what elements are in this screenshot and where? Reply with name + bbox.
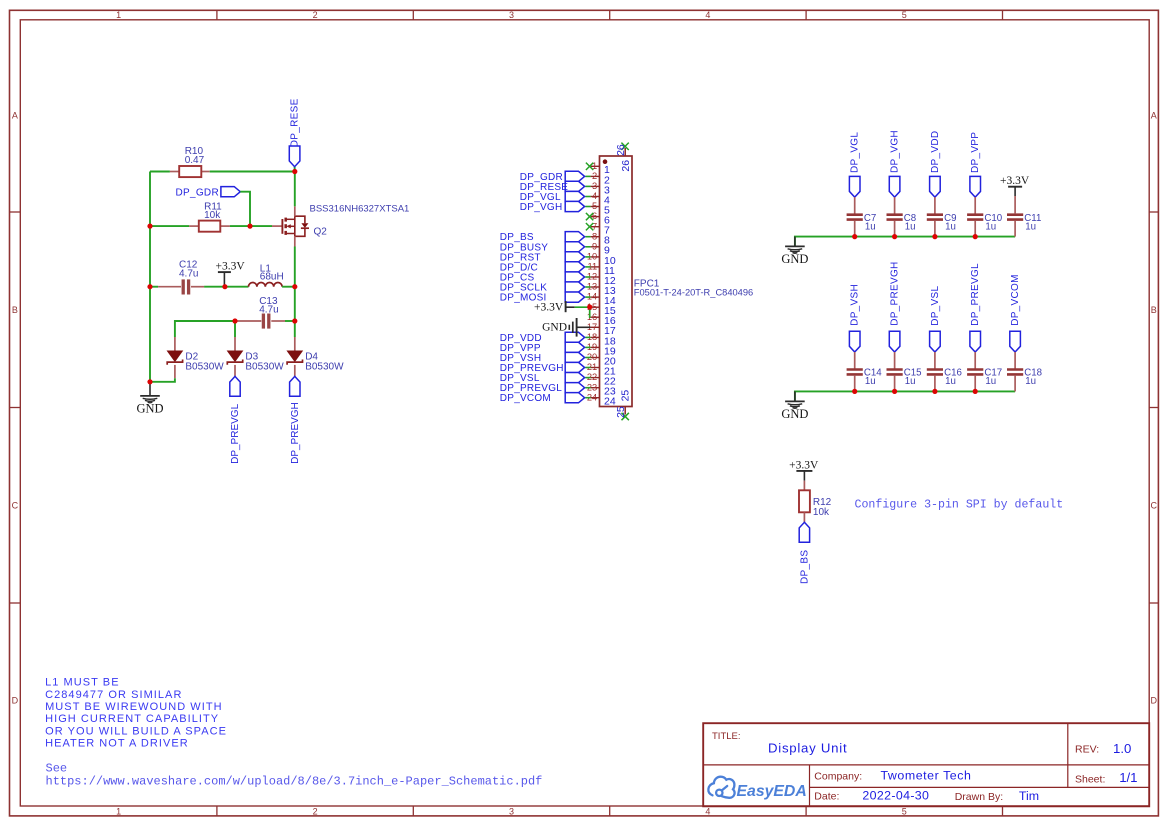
svg-text:TITLE:: TITLE:: [712, 731, 741, 742]
pin 25 no-connect X: [622, 413, 629, 420]
pin 2 stub: [591, 175, 600, 177]
capacitor C15 1u: [887, 368, 922, 392]
pin 5 stub: [591, 206, 600, 208]
frame column ticks bottom: [217, 806, 1003, 816]
wire pin 10: [585, 256, 590, 258]
svg-text:2: 2: [313, 806, 318, 816]
svg-text:DP_PREVGH: DP_PREVGH: [290, 402, 301, 464]
wire flag to C18: [1014, 352, 1016, 369]
svg-text:DP_VDD: DP_VDD: [930, 131, 941, 173]
svg-text:https://www.waveshare.com/w/up: https://www.waveshare.com/w/upload/8/8e/…: [46, 774, 543, 788]
wire pin 12: [585, 276, 590, 278]
capacitor C10 1u: [967, 213, 1003, 237]
svg-text:DP_PREVGH: DP_PREVGH: [890, 261, 901, 325]
wire pin 20: [585, 357, 590, 359]
svg-text:26: 26: [615, 144, 627, 156]
svg-text:3: 3: [509, 10, 514, 20]
wire Q2 source down: [294, 247, 296, 287]
wire +3.3V to pins 15 16: [575, 307, 591, 317]
wire bus row1: [795, 237, 1015, 247]
capacitor C12: [158, 259, 204, 294]
svg-text:OR YOU WILL BUILD A SPACE: OR YOU WILL BUILD A SPACE: [45, 725, 227, 737]
node junction C17: [973, 389, 978, 394]
svg-text:GND: GND: [542, 322, 567, 334]
svg-text:1.0: 1.0: [1113, 741, 1131, 756]
wire L1 to rail: [282, 286, 295, 288]
wire pin 11: [585, 266, 590, 268]
node junction C7: [852, 234, 857, 239]
pin 1 stub: [591, 165, 600, 167]
node junction C13 left: [232, 318, 237, 323]
wire pin 21: [585, 367, 590, 369]
svg-text:5: 5: [592, 201, 597, 211]
pin 12 stub: [591, 276, 600, 278]
svg-text:+3.3V: +3.3V: [534, 301, 564, 313]
power +3.3V left: [216, 261, 246, 287]
pin 17 stub: [591, 326, 600, 328]
net flag DP_VGH: [889, 130, 900, 197]
net flag DP_VPP: [970, 132, 981, 197]
pin 7 no-connect X: [586, 223, 593, 230]
svg-text:F0501-T-24-20T-R_C840496: F0501-T-24-20T-R_C840496: [634, 288, 753, 298]
svg-text:5: 5: [902, 806, 907, 816]
svg-text:1u: 1u: [985, 221, 996, 232]
net flag DP_CS pin 12: [500, 272, 585, 284]
svg-text:GND: GND: [781, 407, 808, 421]
svg-text:+3.3V: +3.3V: [1000, 175, 1030, 187]
svg-text:2022-04-30: 2022-04-30: [862, 789, 929, 803]
wire pin 14: [585, 296, 590, 298]
wire bus row2: [795, 391, 1015, 401]
svg-text:Display Unit: Display Unit: [768, 740, 847, 755]
wire pin 5: [585, 206, 590, 208]
svg-text:Twometer Tech: Twometer Tech: [881, 769, 972, 783]
pin 25 stub bottom: [624, 407, 626, 415]
svg-text:Company:: Company:: [814, 770, 862, 782]
pin 21 stub: [591, 367, 600, 369]
svg-text:9: 9: [592, 241, 597, 251]
svg-text:24: 24: [604, 396, 616, 408]
svg-text:C2849477 OR SIMILAR: C2849477 OR SIMILAR: [45, 689, 182, 701]
node junction C14: [852, 389, 857, 394]
node junction C10: [973, 234, 978, 239]
wire flag to C15: [894, 352, 896, 369]
diode D2 B0530W: [167, 337, 224, 378]
frame row letters right: [1151, 111, 1158, 706]
svg-text:Configure 3-pin SPI by default: Configure 3-pin SPI by default: [855, 498, 1064, 511]
net flag DP_VCOM pin 24: [500, 393, 585, 405]
ground GND row1: [781, 237, 808, 267]
net flag DP_VSH pin 20: [500, 352, 585, 364]
svg-text:4.7u: 4.7u: [179, 268, 198, 279]
net flag DP_GDR: [176, 187, 241, 199]
wire C13 right to rail: [285, 320, 295, 322]
svg-text:HEATER NOT A DRIVER: HEATER NOT A DRIVER: [45, 738, 189, 750]
node junction C8: [892, 234, 897, 239]
net flag DP_VSH: [849, 284, 860, 352]
net flag DP_VCOM: [1010, 274, 1021, 352]
EasyEDA logo cloud: [708, 777, 734, 798]
svg-text:1u: 1u: [1025, 376, 1036, 387]
power +3.3V above R12: [789, 459, 819, 480]
transistor Q2 BSS316NH6327XTSA1: [272, 204, 409, 247]
svg-text:B0530W: B0530W: [245, 361, 284, 372]
svg-text:1u: 1u: [905, 376, 916, 387]
svg-text:1u: 1u: [865, 221, 876, 232]
svg-text:Drawn By:: Drawn By:: [955, 791, 1003, 803]
net flag DP_MOSI pin 14: [500, 292, 585, 304]
wire pin 4: [585, 196, 590, 198]
svg-text:5: 5: [902, 10, 907, 20]
wire R11 row left: [150, 225, 189, 227]
wire pin 3: [585, 185, 590, 187]
svg-text:DP_BS: DP_BS: [799, 550, 810, 584]
wire pin 18: [585, 336, 590, 338]
net flag DP_D/C pin 11: [500, 262, 585, 274]
pin 9 stub: [591, 246, 600, 248]
svg-text:4: 4: [705, 806, 710, 816]
inductor L1 68uH: [249, 263, 284, 286]
frame row ticks left: [10, 212, 21, 603]
power +3.3V above C11: [1000, 175, 1030, 214]
pin 18 stub: [591, 336, 600, 338]
svg-text:Sheet:: Sheet:: [1075, 774, 1105, 786]
svg-text:GND: GND: [781, 252, 808, 266]
pin 22 stub: [591, 377, 600, 379]
net flag DP_PREVGH: [290, 376, 301, 464]
capacitor C18 1u: [1007, 368, 1042, 392]
wire flag to C16: [934, 352, 936, 369]
title block outer box: [703, 723, 1149, 806]
svg-text:L1 MUST BE: L1 MUST BE: [45, 677, 120, 689]
node junction C12 left rail: [147, 284, 152, 289]
net flag DP_VDD: [930, 131, 941, 197]
svg-text:1u: 1u: [945, 221, 956, 232]
svg-text:1: 1: [116, 10, 121, 20]
svg-text:1u: 1u: [1025, 221, 1036, 232]
svg-text:B: B: [12, 305, 18, 315]
svg-text:Tim: Tim: [1019, 789, 1039, 803]
net flag DP_BS pin 8: [500, 232, 585, 244]
ground GND left: [136, 382, 163, 416]
net flag DP_GDR pin 2: [520, 171, 585, 183]
pin 3 stub: [591, 185, 600, 187]
svg-text:8: 8: [592, 231, 597, 241]
svg-text:1u: 1u: [865, 376, 876, 387]
net flag DP_PREVGH: [889, 261, 900, 352]
svg-text:MUST BE WIREWOUND WITH: MUST BE WIREWOUND WITH: [45, 701, 223, 713]
wire pin 8: [585, 236, 590, 238]
svg-text:DP_VCOM: DP_VCOM: [500, 393, 551, 404]
pin 26 stub top: [624, 148, 626, 156]
svg-text:BSS316NH6327XTSA1: BSS316NH6327XTSA1: [310, 204, 410, 215]
net flag DP_VGH pin 5: [520, 201, 585, 213]
wire C12 to +3.3V node: [204, 286, 248, 288]
svg-text:4: 4: [592, 191, 597, 201]
wire pin 2: [585, 175, 590, 177]
wire C13 row left corner: [175, 321, 235, 337]
wire left rail vertical: [149, 172, 151, 382]
node junction C16: [932, 389, 937, 394]
svg-text:DP_VGL: DP_VGL: [850, 132, 861, 173]
wire flag to C9: [934, 197, 936, 214]
pin 15 stub: [591, 306, 600, 308]
wire D3 top lead: [234, 321, 236, 337]
svg-text:DP_RESE: DP_RESE: [290, 98, 301, 147]
power +3.3V pin15: [534, 301, 575, 313]
svg-text:DP_GDR: DP_GDR: [176, 188, 219, 199]
net flag DP_PREVGL: [230, 376, 241, 464]
connector FPC1 body: [600, 156, 633, 407]
wire DP_GDR to gate node: [240, 192, 250, 226]
diode D3 B0530W: [227, 337, 284, 376]
pin 13 stub: [591, 286, 600, 288]
svg-text:+3.3V: +3.3V: [789, 459, 819, 471]
net flag DP_RST pin 10: [500, 252, 585, 264]
capacitor C17 1u: [967, 368, 1002, 392]
pin 24 stub: [591, 397, 600, 399]
wire pin 13: [585, 286, 590, 288]
wire pin 24: [585, 397, 590, 399]
pin 1 marker dot: [603, 159, 608, 164]
svg-text:C: C: [12, 501, 19, 511]
net flag DP_BS bottom: [799, 522, 810, 584]
capacitor C7 1u: [847, 213, 877, 237]
wire pin 23: [585, 387, 590, 389]
svg-text:DP_VPP: DP_VPP: [970, 132, 981, 173]
net flag DP_PREVGH pin 21: [500, 362, 585, 374]
net flag DP_VPP pin 19: [500, 342, 585, 354]
pin 10 stub: [591, 256, 600, 258]
svg-text:D: D: [1151, 696, 1158, 706]
svg-text:16: 16: [587, 312, 597, 322]
net flag DP_VGL: [849, 132, 860, 198]
net flag DP_PREVGL: [970, 263, 981, 352]
svg-text:Q2: Q2: [314, 227, 328, 238]
net flag DP_RESE pin 3: [520, 181, 585, 193]
pin 14 stub: [591, 296, 600, 298]
net flag DP_VGL pin 4: [520, 191, 585, 203]
frame column numbers bottom: [116, 806, 907, 816]
svg-text:GND: GND: [136, 402, 163, 416]
resistor R12 10k: [799, 481, 832, 523]
wire D4 top lead: [294, 321, 296, 337]
frame column ticks top: [217, 10, 1003, 19]
capacitor C14 1u: [847, 368, 883, 392]
wire pin 9: [585, 246, 590, 248]
svg-text:DP_VGH: DP_VGH: [520, 202, 563, 213]
svg-text:HIGH CURRENT CAPABILITY: HIGH CURRENT CAPABILITY: [45, 713, 219, 725]
svg-text:EasyEDA: EasyEDA: [737, 783, 807, 800]
svg-text:25: 25: [619, 390, 631, 402]
node junction C15: [892, 389, 897, 394]
svg-text:DP_PREVGL: DP_PREVGL: [970, 263, 981, 326]
title block divider horizontal 1: [703, 764, 1149, 766]
wire Q2 drain up: [294, 172, 296, 207]
svg-text:26: 26: [620, 160, 632, 172]
node junction L1 rail: [292, 284, 297, 289]
svg-text:DP_VGH: DP_VGH: [890, 130, 901, 173]
wire pin 19: [585, 346, 590, 348]
diode D4 B0530W: [287, 337, 344, 376]
capacitor C8 1u: [887, 213, 917, 237]
svg-text:10k: 10k: [813, 507, 830, 518]
svg-text:REV:: REV:: [1075, 744, 1099, 756]
svg-text:DP_PREVGL: DP_PREVGL: [230, 403, 241, 463]
pin 20 stub: [591, 357, 600, 359]
net flag DP_BUSY pin 9: [500, 242, 585, 254]
svg-text:B0530W: B0530W: [185, 361, 224, 372]
node junction gnd left: [147, 379, 152, 384]
wire flag to C8: [894, 197, 896, 214]
net flag DP_VDD pin 18: [500, 332, 585, 344]
wire flag to C14: [854, 352, 856, 369]
wire flag to C10: [974, 197, 976, 214]
svg-text:B0530W: B0530W: [305, 361, 344, 372]
title block divider vertical logo cell: [809, 765, 811, 806]
svg-text:+3.3V: +3.3V: [216, 261, 246, 273]
ground GND row2: [781, 391, 808, 421]
svg-text:3: 3: [509, 806, 514, 816]
svg-text:DP_VCOM: DP_VCOM: [1010, 274, 1021, 326]
svg-text:4: 4: [705, 10, 710, 20]
wire flag to C7: [854, 197, 856, 214]
svg-text:1u: 1u: [985, 376, 996, 387]
svg-text:1u: 1u: [945, 376, 956, 387]
capacitor C16 1u: [927, 368, 962, 392]
svg-text:1: 1: [116, 806, 121, 816]
pin 19 stub: [591, 346, 600, 348]
wire pin 22: [585, 377, 590, 379]
svg-text:C: C: [1151, 501, 1158, 511]
node junction +3.3V left: [222, 284, 227, 289]
pin 26 no-connect X: [621, 143, 628, 150]
node junction R11 left rail: [147, 224, 152, 229]
svg-text:2: 2: [592, 171, 597, 181]
svg-text:10k: 10k: [204, 210, 221, 221]
node junction C13 rail: [292, 318, 297, 323]
net flag DP_VSL: [930, 286, 941, 352]
frame column numbers top: [116, 10, 907, 20]
svg-text:D: D: [12, 696, 19, 706]
node junction pin15: [587, 304, 592, 309]
title block divider vertical rev/sheet: [1067, 723, 1069, 787]
net flag DP_PREVGL pin 23: [500, 383, 585, 395]
node junction DP_RESE: [292, 169, 297, 174]
title block divider horizontal 2: [810, 786, 1150, 788]
svg-text:1u: 1u: [905, 221, 916, 232]
svg-text:A: A: [1151, 111, 1157, 121]
capacitor C13: [235, 296, 285, 329]
svg-text:4.7u: 4.7u: [259, 305, 278, 316]
pin 11 stub: [591, 266, 600, 268]
pin 8 stub: [591, 236, 600, 238]
resistor R10: [170, 146, 210, 177]
svg-text:68uH: 68uH: [260, 271, 284, 282]
net flag DP_VSL pin 22: [500, 373, 585, 385]
svg-text:DP_VSH: DP_VSH: [850, 284, 861, 326]
capacitor C9 1u: [927, 213, 957, 237]
pin 23 stub: [591, 387, 600, 389]
pin 6 no-connect X: [586, 213, 593, 220]
pin 4 stub: [591, 196, 600, 198]
svg-text:A: A: [12, 111, 18, 121]
note text L1 MUST BE block: [45, 677, 227, 750]
wire top row R10 left: [150, 171, 170, 173]
svg-text:B: B: [1151, 305, 1157, 315]
svg-text:0.47: 0.47: [185, 155, 205, 166]
svg-text:Date:: Date:: [814, 791, 839, 803]
wire R11 to gate: [230, 225, 272, 227]
resistor R11: [189, 201, 230, 231]
ground GND pin17: [542, 318, 591, 337]
pin 6 stub: [591, 216, 600, 218]
net flag DP_RESE: [289, 98, 300, 171]
wire flag to C17: [974, 352, 976, 369]
node junction gate: [247, 224, 252, 229]
node junction C9: [932, 234, 937, 239]
wire C12 row left: [150, 286, 158, 288]
pin 7 stub: [591, 226, 600, 228]
pin 1 no-connect X: [586, 163, 593, 170]
svg-text:2: 2: [313, 10, 318, 20]
svg-text:1/1: 1/1: [1119, 770, 1137, 785]
frame row letters left: [12, 111, 19, 706]
wire rail L1 to C13 row: [294, 287, 296, 321]
capacitor C11 1u: [1007, 213, 1041, 237]
net flag DP_SCLK pin 13: [500, 282, 585, 294]
pin 16 stub: [591, 316, 600, 318]
wire D2 to gnd row: [150, 378, 175, 382]
svg-text:25: 25: [615, 406, 627, 418]
svg-text:DP_VSL: DP_VSL: [930, 286, 941, 326]
wire top row R10 right: [210, 171, 295, 173]
svg-text:3: 3: [592, 181, 597, 191]
frame row ticks right: [1149, 212, 1158, 603]
